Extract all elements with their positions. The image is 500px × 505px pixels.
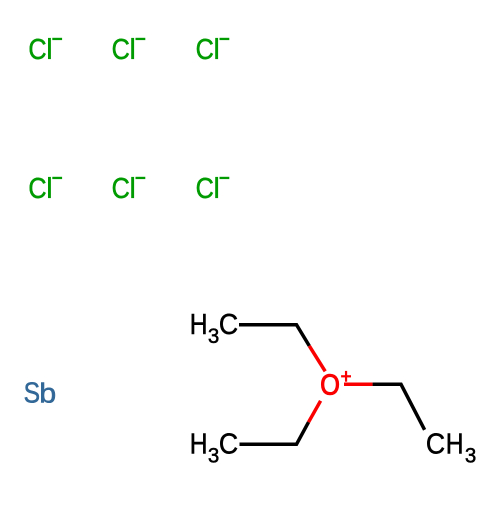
bond C-O upper-left red half <box>309 346 325 371</box>
svg-text:S: S <box>24 376 40 408</box>
methyl label CH3 (right ethyl) <box>426 427 476 467</box>
chloride ion Cl- #2 <box>112 32 146 65</box>
svg-text:3: 3 <box>465 444 476 468</box>
bond O-C right red half <box>344 383 373 387</box>
svg-text:C: C <box>196 32 214 65</box>
svg-text:b: b <box>39 379 56 409</box>
antimony atom Sb <box>24 376 57 408</box>
bond O-C lower-left black half + C-C bottom horizontal <box>240 422 309 444</box>
svg-text:C: C <box>219 428 238 460</box>
svg-text:C: C <box>219 308 238 340</box>
svg-text:H: H <box>190 308 208 340</box>
oxonium atom O+ <box>320 368 351 401</box>
methyl label H3C (top-left ethyl) <box>190 308 238 348</box>
chloride ion Cl- #4 <box>28 171 62 204</box>
bond O-C lower-left red half <box>309 401 321 422</box>
svg-text:C: C <box>112 171 130 204</box>
svg-text:C: C <box>426 427 445 459</box>
chloride ion Cl- #5 <box>112 171 146 204</box>
chloride ion Cl- #1 <box>28 32 62 65</box>
svg-text:H: H <box>190 428 208 460</box>
methyl label H3C (bottom-left ethyl) <box>190 428 238 468</box>
svg-text:H: H <box>446 428 464 460</box>
bond C-C top-left (H3C-CH2) <box>239 325 309 346</box>
svg-text:C: C <box>196 171 214 204</box>
svg-text:O: O <box>320 368 340 401</box>
bond O-C right black half + C-C diagonal to CH3 <box>373 384 425 430</box>
chloride ion Cl- #3 <box>196 32 230 65</box>
svg-text:C: C <box>28 32 46 65</box>
svg-text:C: C <box>28 171 46 204</box>
svg-text:C: C <box>112 32 130 65</box>
svg-text:3: 3 <box>208 325 219 349</box>
svg-text:3: 3 <box>208 444 219 468</box>
chloride ion Cl- #6 <box>196 171 230 204</box>
